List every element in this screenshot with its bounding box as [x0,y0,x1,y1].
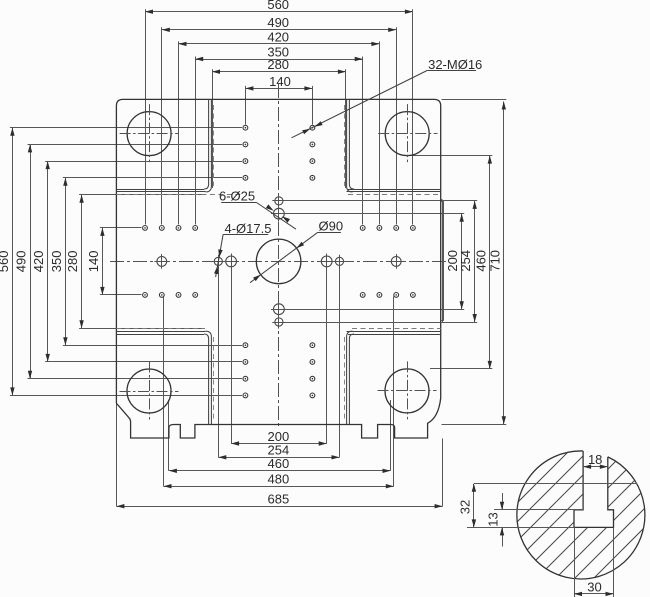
svg-text:460: 460 [268,456,290,471]
dimension 200 right [461,214,463,310]
dimension 254 right [474,201,476,322]
svg-text:480: 480 [268,472,290,487]
hidden hole col (dashed) right [344,105,346,186]
svg-text:200: 200 [268,429,290,444]
hidden hole row (dashed) bottom [116,328,205,330]
dimension 460 right [489,156,491,369]
svg-text:460: 460 [473,250,488,272]
dimension 480 bottom [164,486,394,488]
svg-text:710: 710 [487,250,502,272]
svg-text:Ø90: Ø90 [319,218,344,233]
detail dim 32 [474,483,637,485]
center hole circle Ø90 [256,239,301,284]
detail dim 13 [494,509,583,511]
svg-text:32: 32 [457,500,472,514]
svg-text:13: 13 [486,512,501,526]
tie-bar hole circle bottom-left [127,369,171,413]
bottom dimension extension lines [231,268,233,444]
right dimension extension lines [285,213,465,215]
detail dim 30 [574,527,576,597]
svg-text:420: 420 [267,29,289,44]
dimension 560 top [145,11,413,13]
svg-text:420: 420 [31,251,46,273]
M16 bolt holes left arm grid [143,226,148,231]
M16 bolt holes right arm grid [360,226,365,231]
dimension 350 top [195,59,363,61]
svg-text:560: 560 [267,0,289,12]
svg-text:685: 685 [268,492,290,507]
tie-bar hole circle top-right [385,112,429,156]
arm center holes [157,257,167,267]
hidden hole col (dashed) left [213,105,215,186]
T-slot profile [574,451,614,527]
dimension 280 left [81,195,83,329]
main vertical centerline [278,84,280,429]
horizontal band bottom edge (double line) [116,331,205,333]
left dimension extension lines [10,127,242,129]
svg-text:490: 490 [267,15,289,30]
top dimension extension lines [145,9,147,224]
svg-text:32-MØ16: 32-MØ16 [428,57,482,72]
tie-bar hole circle bottom-right [385,369,429,413]
dimension 490 left [30,144,32,378]
dimension 140 top [245,88,312,90]
svg-text:18: 18 [588,452,602,467]
dimension 254 bottom [218,457,339,459]
right edge step [441,199,443,201]
svg-text:560: 560 [0,251,11,273]
4-Ø17.5 holes around center [214,257,222,265]
svg-text:140: 140 [86,251,101,273]
dimension 140 left [102,228,104,295]
dimension 560 left [12,128,14,396]
svg-text:280: 280 [65,251,80,273]
dimension 490 top [162,29,396,31]
main horizontal centerline [110,261,447,263]
dimension 420 left [47,161,49,362]
svg-text:4-Ø17.5: 4-Ø17.5 [225,221,272,236]
svg-text:490: 490 [14,251,29,273]
vertical band left edge / pocket corners [204,99,209,189]
vertical band right edge / pocket corners [349,99,354,189]
dimension 710 right [503,102,505,425]
svg-text:280: 280 [267,57,289,72]
svg-text:254: 254 [458,250,473,272]
dimension 685 bottom [116,506,442,508]
horizontal band top edge (double line) [116,189,204,191]
svg-text:6-Ø25: 6-Ø25 [219,188,255,203]
dimension 460 bottom [169,470,391,472]
dimension 350 left [65,178,67,345]
dimension 280 top [212,71,346,73]
dimension 200 bottom [231,443,327,445]
detail circle outline [517,451,645,579]
dimension 420 top [179,43,380,45]
M16 bolt holes vertical band bottom [243,343,248,348]
hidden hole row (dashed) top [116,194,242,196]
tie-bar hole circle top-left [127,112,171,156]
svg-text:30: 30 [587,580,601,595]
plate outer outline [116,99,440,438]
svg-text:140: 140 [269,74,291,89]
6-Ø25 holes around center [226,256,237,267]
M16 bolt holes vertical band top [243,125,248,130]
svg-text:350: 350 [49,251,64,273]
